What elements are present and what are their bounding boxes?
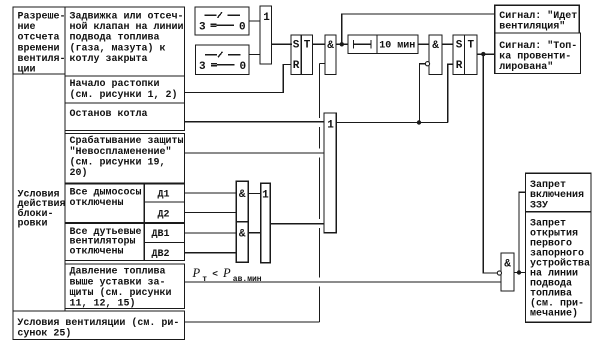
node: junction U6 output: [481, 52, 485, 56]
wire timer U4 to U5: [418, 43, 429, 45]
svg-text:ДВ1: ДВ1: [152, 229, 170, 240]
svg-text:P: P: [222, 266, 231, 280]
svg-text:1: 1: [262, 189, 269, 201]
input block: Останов котла: [65, 103, 185, 131]
svg-text:<: <: [212, 269, 218, 280]
svg-text:0: 0: [240, 61, 247, 73]
wire D2 to D3: [248, 232, 260, 234]
AND gate U3: [325, 35, 336, 75]
node: junction U8 output: [517, 270, 521, 274]
wire junction up to U5 inverted input: [420, 64, 426, 123]
wire U2 T output to U3: [313, 43, 326, 45]
wire DT1 to U1: [249, 20, 260, 22]
wire feedback U3 output to signal box Идет вентиляция: [342, 14, 495, 44]
flip-flop U6 (S T R trigger): [453, 35, 477, 75]
wire Д2 to D1: [185, 212, 237, 214]
wire Останов котла to U7: [185, 121, 325, 123]
timer element DT1 (contact symbol 3—0): [195, 7, 249, 35]
wire ДВ1 to D2: [185, 232, 237, 234]
svg-text:&: &: [504, 259, 511, 271]
svg-text:T: T: [304, 40, 311, 52]
svg-text:&: &: [239, 228, 246, 240]
svg-text:ДВ2: ДВ2: [152, 249, 170, 260]
svg-text:0: 0: [239, 22, 246, 34]
AND gate D1 (дымососы): [236, 181, 248, 222]
wire Начало растопки to U2 R input: [185, 65, 292, 93]
output block: Сигнал Идет вентиляция: [495, 5, 580, 33]
wire Давление топлива to U8 input: [185, 281, 502, 283]
AND gate D2 (дутьевые вентиляторы): [236, 222, 248, 262]
wire U8 output to Запрет открытия with junction: [514, 272, 526, 274]
output block: Сигнал Топка провентилирована: [495, 33, 581, 74]
timer U4 (10 мин delay): [348, 35, 418, 54]
wire Д1 to D1: [185, 192, 237, 194]
svg-text:1: 1: [327, 119, 334, 131]
svg-text:Д2: Д2: [158, 209, 170, 220]
svg-text:P: P: [192, 266, 201, 280]
wire U6 output down to U8 inverted input: [483, 54, 497, 273]
wire U7 output up to U6 R input: [448, 64, 453, 122]
svg-text:1: 1: [263, 12, 270, 24]
timer element DT2 (contact symbol 3—0): [196, 45, 250, 75]
AND gate U5 with inverted input: [425, 35, 442, 75]
svg-text:T: T: [467, 40, 474, 52]
flip-flop U2 (S T R trigger): [291, 35, 313, 75]
wire Условия вентиляции up to U3 input (with crossing gaps): [185, 63, 326, 322]
OR gate U7 (tall): [324, 113, 336, 233]
wire D3 output to OR gate U7: [270, 223, 324, 225]
svg-text:&: &: [327, 40, 334, 52]
output block: Запрет открытия первого запорного устройства: [526, 212, 592, 323]
input block: Условия вентиляции: [13, 311, 185, 340]
svg-text:S: S: [456, 40, 463, 52]
input block: Давление топлива выше уставки защиты: [65, 264, 185, 310]
svg-text:Останов котла: Останов котла: [70, 109, 148, 120]
output block: Запрет включения ЗЗУ: [526, 173, 592, 211]
input block: Срабатывание защиты Невоспламенение: [65, 134, 185, 184]
svg-text:Д1: Д1: [158, 190, 170, 201]
node: junction on U7 output: [417, 120, 421, 124]
label Pт < Pав.мин: [192, 266, 262, 284]
wire U8 output up to Запрет включения ЗЗУ: [519, 192, 526, 272]
node: junction U3 output: [340, 42, 344, 46]
svg-text:&: &: [239, 189, 246, 201]
OR gate U1: [260, 6, 272, 64]
wire U3 output to timer with junction: [336, 43, 348, 45]
wire U1 output to U2 S input: [272, 43, 293, 45]
wire U6 T output to signal box with junction: [477, 53, 495, 55]
svg-text:R: R: [293, 60, 300, 72]
input block: Все дутьевые вентиляторы отключены (ДВ1, ДВ2): [65, 224, 185, 261]
wire DT2 to U1: [249, 54, 260, 56]
svg-text:R: R: [456, 60, 463, 72]
svg-text:S: S: [293, 40, 300, 52]
input block: Начало растопки: [65, 76, 185, 103]
wire D1 to D3: [248, 193, 260, 195]
svg-text:3: 3: [199, 61, 206, 73]
OR gate D3: [261, 183, 271, 263]
wire ДВ2 to D2: [185, 252, 237, 254]
svg-text:3: 3: [199, 22, 206, 34]
svg-text:10 мин: 10 мин: [379, 40, 415, 51]
input block: Условия действия блокировки: [13, 74, 66, 311]
wire U7 output with junction, to U5 inverted input and U6 R input: [336, 122, 448, 124]
input block: Задвижка или отсечной клапан закрыта: [65, 7, 185, 76]
wire Срабатывание защиты to U7: [185, 152, 325, 154]
AND gate U8 with inverted input: [497, 253, 514, 291]
input block: Разрешение отсчета времени вентиляции: [13, 7, 66, 76]
svg-text:&: &: [432, 40, 439, 52]
wire U5 to U6 S input: [442, 43, 453, 45]
input block: Все дымососы отключены (Д1, Д2): [65, 184, 185, 223]
